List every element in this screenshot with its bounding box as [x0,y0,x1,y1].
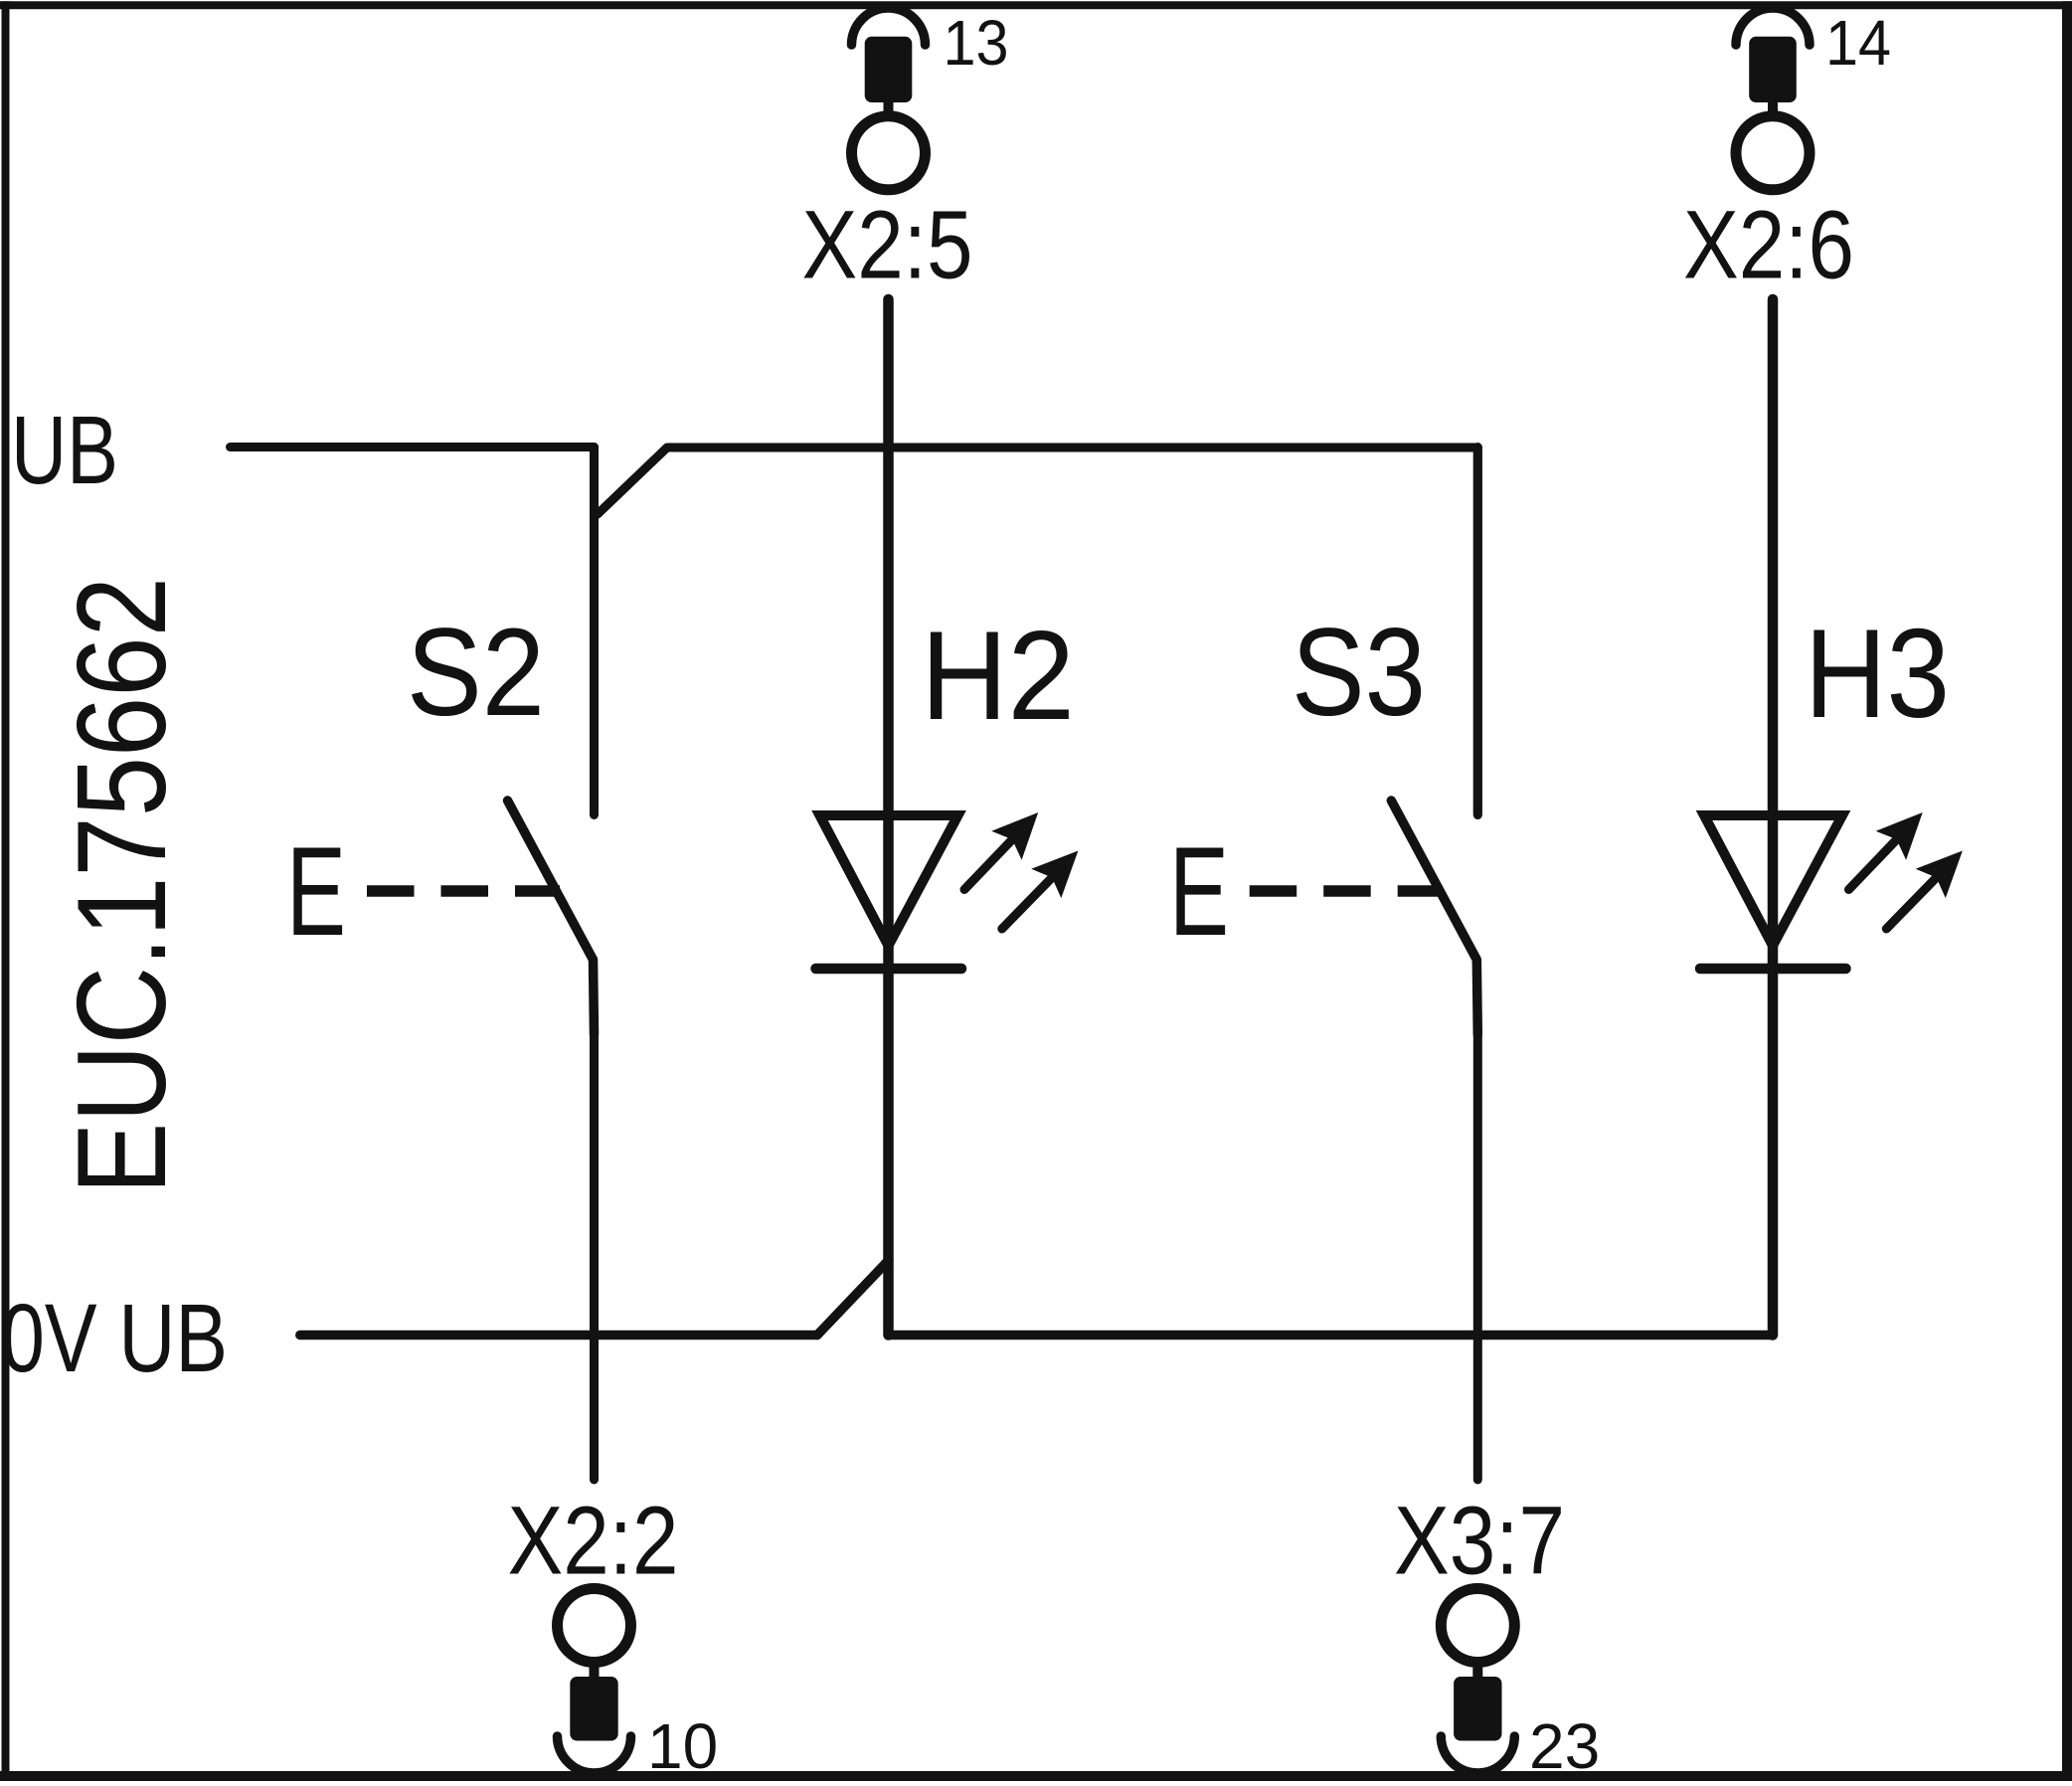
terminal X3:7 socket arc [1441,1736,1514,1773]
wire S2 lower to X2:2 (crosses 0V UB) [590,1032,599,1480]
terminal X2:6 test point circle [1736,116,1810,190]
svg-text:23: 23 [1529,1710,1600,1782]
svg-text:H2: H2 [921,605,1075,746]
LED H2 light arrow 2 [1002,879,1051,929]
svg-text:E: E [1169,820,1229,962]
terminal X2:5 socket arc [852,8,926,45]
pushbutton S2 moving blade [508,801,595,1034]
wire 0V UB from H2 column to H3 column [889,1331,1774,1340]
svg-text:E: E [286,820,346,962]
LED H2 cathode bar [816,964,962,975]
svg-text:EUC.175662: EUC.175662 [51,577,192,1194]
wire UB branch: diagonal jog to right rail [598,447,1477,514]
wire UB right rail down to S3 [1473,447,1482,815]
terminal X2:5 stem [884,99,894,113]
svg-text:10: 10 [647,1710,718,1782]
svg-text:0V UB: 0V UB [1,1284,228,1392]
pushbutton S3 moving blade [1391,801,1477,1034]
terminal X3:7 plug pin [1454,1677,1501,1741]
svg-text:S2: S2 [407,604,545,742]
terminal X2:2 plug pin [570,1677,617,1741]
actuator dashed link (S3) [1250,885,1438,897]
terminal X2:6 stem [1768,99,1778,113]
wire UB from label to S2 column [231,443,595,451]
pushbutton S3 fixed contact (upper) [1473,447,1482,815]
terminal X2:6 plug pin [1749,37,1797,102]
terminal X3:7 stem [1472,1665,1482,1681]
LED H3 light arrow 1 [1849,841,1896,890]
svg-text:X2:6: X2:6 [1683,191,1854,299]
wire 0V UB diagonal jog up to H2 column [817,1260,889,1336]
svg-text:13: 13 [944,7,1009,79]
terminal X2:6 socket arc [1736,8,1810,45]
LED H3 triangle (anode) [1704,815,1842,946]
terminal X2:2 socket arc [558,1736,631,1773]
terminal X3:7 test point circle [1441,1589,1514,1663]
wire 0V UB from label to H2 jog [300,1331,817,1340]
terminal X2:5 test point circle [852,116,926,190]
LED H2 triangle (anode) [820,815,958,946]
svg-text:14: 14 [1825,7,1891,79]
svg-text:X2:2: X2:2 [508,1487,679,1595]
LED H3 light arrow 2 [1886,879,1935,929]
LED H2 light arrow 1 [964,841,1011,890]
LED H3 cathode bar [1700,964,1846,975]
svg-text:X2:5: X2:5 [802,191,973,299]
svg-text:X3:7: X3:7 [1394,1487,1565,1595]
actuator dashed link (S2) [367,885,560,897]
terminal X2:2 test point circle [558,1589,631,1663]
svg-text:S3: S3 [1292,604,1426,742]
terminal X2:2 stem [590,1665,600,1681]
wire S3 lower to X3:7 (crosses 0V UB) [1473,1032,1482,1480]
svg-text:H3: H3 [1805,603,1950,744]
wire X2:5 down through H2 to 0V UB [883,299,894,1336]
pushbutton S2 fixed contact (upper) [590,447,599,815]
wire X2:6 down through H3 to 0V UB [1768,299,1779,1336]
svg-text:UB: UB [11,396,118,504]
terminal X2:5 plug pin [865,37,913,102]
